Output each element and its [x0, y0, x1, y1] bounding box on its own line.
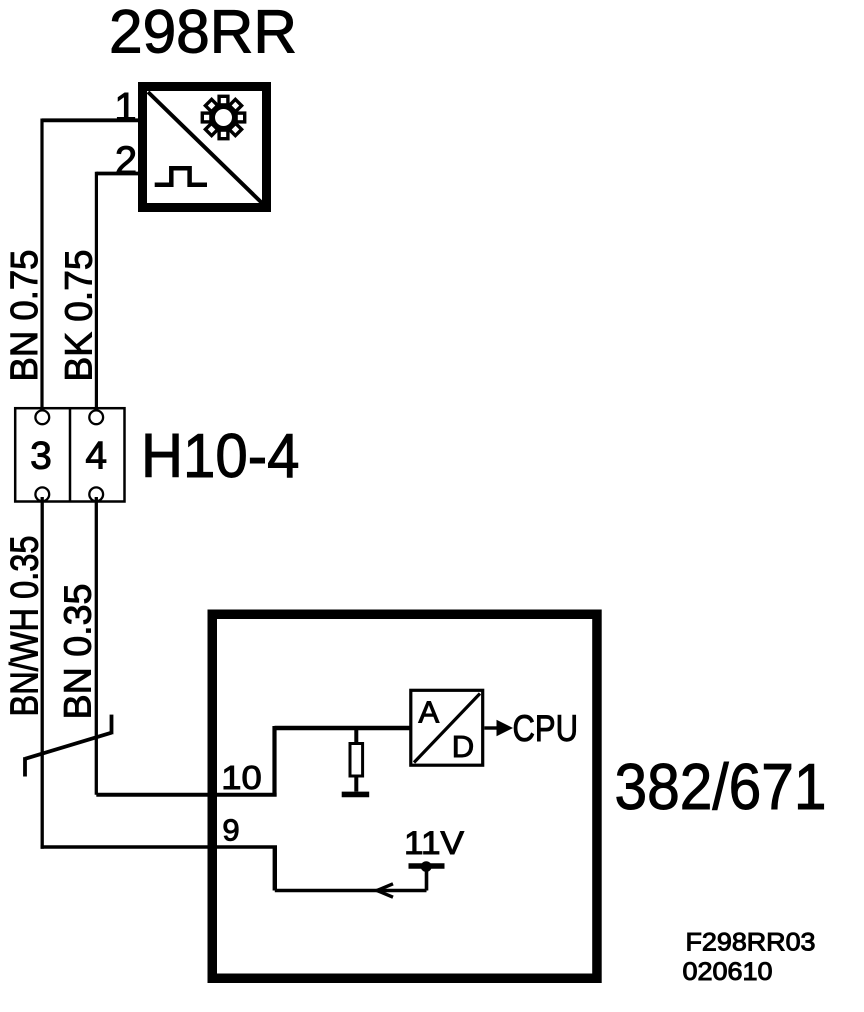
svg-text:9: 9 — [222, 813, 239, 848]
svg-text:2: 2 — [115, 139, 137, 183]
svg-text:CPU: CPU — [513, 707, 579, 749]
svg-text:BK 0.75: BK 0.75 — [59, 250, 101, 382]
svg-text:11V: 11V — [404, 825, 464, 861]
svg-text:D: D — [452, 729, 474, 764]
svg-text:BN 0.35: BN 0.35 — [58, 584, 100, 720]
svg-text:298RR: 298RR — [109, 0, 297, 66]
svg-text:1: 1 — [114, 86, 136, 130]
svg-text:10: 10 — [221, 759, 261, 796]
svg-text:020610: 020610 — [683, 959, 773, 986]
svg-text:F298RR03: F298RR03 — [686, 929, 816, 957]
svg-text:BN 0.75: BN 0.75 — [4, 250, 46, 382]
svg-text:H10-4: H10-4 — [141, 422, 300, 491]
svg-text:3: 3 — [30, 435, 52, 478]
svg-text:4: 4 — [85, 435, 107, 478]
svg-text:A: A — [418, 694, 439, 729]
svg-text:382/671: 382/671 — [615, 750, 827, 823]
svg-text:BN/WH 0.35: BN/WH 0.35 — [4, 536, 47, 717]
